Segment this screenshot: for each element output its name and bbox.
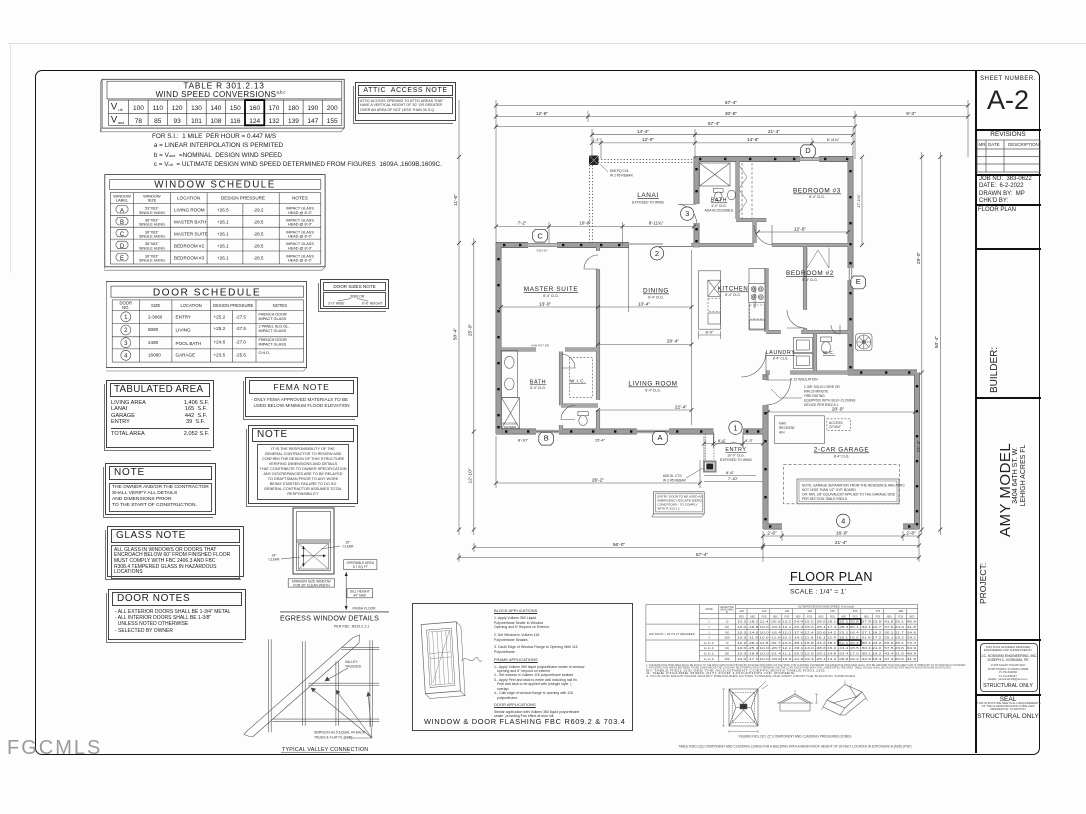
svg-text:FOR 20" CLEAR WIDTH: FOR 20" CLEAR WIDTH: [293, 583, 330, 587]
svg-text:2e, 2n, 2r: 2e, 2n, 2r: [704, 647, 714, 650]
svg-text:1: 1: [708, 637, 710, 640]
svg-text:FINISH FLOOR: FINISH FLOOR: [352, 607, 376, 611]
wall left exterior: [496, 243, 501, 434]
svg-text:120: 120: [762, 609, 767, 613]
window C: [528, 244, 557, 247]
wind speed conversion table: [100, 76, 352, 134]
svg-text:44" MAX: 44" MAX: [353, 594, 367, 598]
typical valley connection: [244, 635, 379, 738]
svg-text:2e, 2n, 2r: 2e, 2n, 2r: [704, 653, 714, 656]
pool bath sink: [728, 190, 736, 200]
window & door flashing box: [412, 603, 633, 731]
svg-text:POS: POS: [784, 616, 789, 618]
svg-text:ULTIMATE DESIGN WIND SPEED, V-: ULTIMATE DESIGN WIND SPEED, V-ult (mph): [798, 605, 854, 609]
pool bath toilet: [714, 189, 724, 193]
wall wic/toilet divider: [561, 404, 598, 407]
wall pool bath west: [736, 161, 739, 219]
wall bedroom2 south: [766, 331, 850, 334]
svg-text:1: 1: [708, 626, 710, 629]
svg-text:NEG: NEG: [819, 616, 824, 618]
svg-text:SIMPSON H2.5 EQUAL #4 EACH: SIMPSON H2.5 EQUAL #4 EACH: [314, 731, 366, 735]
window B: [536, 430, 559, 433]
wall bottom exterior: [496, 429, 764, 434]
note right: [248, 425, 358, 504]
window D: [800, 158, 819, 161]
pressure table: [646, 605, 918, 662]
main drawing frame: [35, 70, 1040, 755]
kitchen counter: [749, 269, 765, 331]
svg-text:POS: POS: [853, 616, 858, 618]
svg-text:5.7 SQ FT: 5.7 SQ FT: [353, 565, 368, 569]
svg-text:140: 140: [807, 609, 812, 613]
svg-text:EGRESS WINDOW DETAILS: EGRESS WINDOW DETAILS: [280, 614, 379, 623]
entry note box: [652, 492, 704, 517]
wall master/dining divider: [597, 247, 600, 352]
svg-text:CLEAR: CLEAR: [343, 545, 355, 549]
fridge dashed: [750, 305, 765, 319]
svg-text:POS: POS: [875, 616, 880, 618]
page edge faint lines: [8, 43, 1086, 44]
svg-text:POS: POS: [830, 616, 835, 618]
svg-text:10: 10: [726, 621, 729, 624]
svg-text:1000: 1000: [724, 637, 730, 640]
island: [699, 271, 721, 329]
pool bath shower: [700, 163, 731, 186]
window schedule: [104, 174, 336, 274]
window/door markers: [533, 145, 866, 528]
svg-text:1: 1: [708, 621, 710, 624]
svg-text:180: 180: [898, 609, 903, 613]
svg-text:HIP ROOF > 20 TO 27 DEGREES: HIP ROOF > 20 TO 27 DEGREES: [649, 632, 695, 636]
tabulated area: [106, 380, 214, 448]
wall laundry/wc divider: [814, 334, 817, 372]
svg-text:100: 100: [725, 626, 730, 629]
window E: [849, 268, 852, 280]
door schedule: [106, 281, 318, 375]
wall garage top: [848, 370, 917, 375]
svg-text:FIGURE R301.2(7) (2'') COMPON: FIGURE R301.2(7) (2'') COMPONENT AND CLA…: [739, 735, 852, 739]
wall bedroom2 west: [804, 247, 807, 333]
wall anchor dots: [497, 158, 918, 528]
svg-text:150: 150: [830, 609, 835, 613]
wall bath/wic divider: [560, 352, 563, 431]
dimension texts: [453, 100, 941, 558]
notes under wind table: [152, 132, 442, 169]
window A: [637, 430, 669, 433]
svg-text:160: 160: [853, 609, 858, 613]
svg-text:500: 500: [725, 653, 730, 656]
bedroom2 closet bifold dashed: [807, 248, 829, 269]
AC fan: [856, 334, 873, 351]
svg-text:ft²: ft²: [726, 611, 728, 614]
wall hall north / dining: [691, 244, 849, 247]
wall top bedroom wing: [694, 157, 853, 162]
wall lanai right: [694, 157, 699, 248]
svg-text:TABLE R301-2(2) COMPONENT AND: TABLE R301-2(2) COMPONENT AND CLADDING L…: [679, 745, 912, 749]
FGCMLS watermark: [7, 737, 102, 760]
svg-text:10.0 -14.0 10.0 -16.4 11.0 -17: 10.0 -14.0 10.0 -16.4 11.0 -17.6 12.4 -2…: [737, 631, 917, 634]
svg-text:TRUSSES: TRUSSES: [345, 665, 362, 669]
svg-text:NEG: NEG: [864, 616, 869, 618]
wall bedroom3 west: [753, 220, 756, 243]
svg-text:PER FBC. R310.2.1-1: PER FBC. R310.2.1-1: [334, 625, 369, 629]
master shower: [502, 398, 520, 429]
svg-text:10.2 -28.4 11.8 -32.7 13.6 -38: 10.2 -28.4 11.8 -32.7 13.6 -38.1 15.8 -4…: [737, 642, 917, 645]
svg-text:2e, 2n, 2r: 2e, 2n, 2r: [704, 658, 714, 661]
footnotes: [646, 663, 966, 678]
wall garage right: [915, 373, 920, 530]
note left: [105, 463, 216, 515]
wall hall/laundry south: [766, 371, 848, 374]
door notes: [108, 589, 246, 640]
svg-text:-115: -115: [739, 609, 745, 613]
fema note: [245, 377, 358, 417]
max recess AH: [774, 416, 824, 444]
roof zone diagrams: [722, 680, 868, 733]
svg-text:10: 10: [726, 642, 729, 645]
svg-text:1: 1: [708, 631, 710, 634]
svg-text:NEG: NEG: [887, 616, 892, 618]
attic access note: [355, 82, 456, 121]
wall garage bottom stubs: [763, 524, 920, 529]
entry column: [704, 462, 716, 472]
svg-text:NEG: NEG: [910, 616, 915, 618]
garage door dashed area + note: [784, 465, 900, 504]
svg-text:10.2 -18.1 11.4 -20.5 13.2 -24: 10.2 -18.1 11.4 -20.5 13.2 -24.4 15.5 -2…: [737, 621, 917, 624]
wall pool bath south: [736, 219, 767, 222]
sliding door 2: [629, 244, 691, 247]
svg-text:1000: 1000: [724, 658, 730, 661]
dimension tick marks: [457, 104, 970, 560]
svg-text:POS: POS: [762, 616, 767, 618]
door arcs: [561, 205, 840, 447]
lanai screen dotted: [590, 160, 695, 244]
svg-text:NEG: NEG: [750, 616, 755, 618]
wc toilet: [821, 337, 832, 342]
door sizes note: [320, 279, 389, 309]
svg-text:2e, 2n, 2r: 2e, 2n, 2r: [704, 642, 714, 645]
svg-text:POS: POS: [739, 616, 744, 618]
bifold closet pool hall: [742, 163, 752, 218]
svg-text:TRUSS & FLAT PL (TYP): TRUSS & FLAT PL (TYP): [314, 736, 352, 740]
washer dryer: [793, 337, 812, 352]
svg-text:170: 170: [876, 609, 881, 613]
small annotations: [600, 164, 856, 483]
wall right exterior: [848, 157, 853, 376]
wall top master suite: [496, 243, 629, 248]
wall garage left: [763, 374, 768, 529]
svg-text:500: 500: [725, 631, 730, 634]
svg-text:130: 130: [785, 609, 790, 613]
svg-text:NEG: NEG: [841, 616, 846, 618]
svg-text:NEG: NEG: [796, 616, 801, 618]
svg-text:10.0 -17.1 10.0 -18.6 10.9 -21: 10.0 -17.1 10.0 -18.6 10.9 -21.6 12.4 -2…: [737, 658, 917, 661]
svg-text:ZONE: ZONE: [705, 607, 713, 611]
svg-text:100: 100: [725, 647, 730, 650]
master wic shelves dashed: [570, 358, 593, 398]
windows (thin): [528, 158, 852, 433]
wall wic east: [597, 352, 600, 431]
svg-text:VALLEY: VALLEY: [345, 660, 358, 664]
wall master suite bottom (pocket door): [501, 348, 598, 351]
master toilet: [578, 412, 588, 416]
svg-text:4. PLUS AND MINUS SIGNS SIGNIF: 4. PLUS AND MINUS SIGNS SIGNIFY PRESSURE…: [646, 674, 856, 678]
svg-text:10.0 -11.9 10.0 -12.8 10.3 -14: 10.0 -11.9 10.0 -12.8 10.3 -14.1 11.5 -1…: [737, 637, 917, 640]
range: [749, 284, 765, 303]
svg-text:POS: POS: [898, 616, 903, 618]
svg-text:10.0 -25.4 10.0 -28.7 12.1 -33: 10.0 -25.4 10.0 -28.7 12.1 -33.1 14.0 -3…: [737, 647, 917, 650]
island sink X: [708, 280, 721, 296]
svg-text:10.0 -18.9 10.0 -21.4 11.1 -25: 10.0 -18.9 10.0 -21.4 11.1 -25.0 12.9 -2…: [737, 653, 917, 656]
glass note: [107, 526, 244, 577]
lanai post: [589, 156, 599, 166]
svg-text:CLEAR: CLEAR: [269, 558, 281, 562]
wall kitchen east: [765, 268, 768, 332]
sink cabinet: [750, 320, 765, 329]
island dishwasher dashed: [708, 299, 721, 312]
svg-text:TYPICAL VALLEY CONNECTION: TYPICAL VALLEY CONNECTION: [282, 747, 368, 753]
egress window detail: [280, 508, 389, 612]
svg-text:POS: POS: [807, 616, 812, 618]
svg-text:10.0 -16.8 10.0 -19.1 12.1 -21: 10.0 -16.8 10.0 -19.1 12.1 -21.4 15.6 -2…: [737, 626, 917, 629]
svg-text:NEG: NEG: [773, 616, 778, 618]
master vanity: [502, 351, 518, 398]
entry jamb dotted: [706, 434, 715, 461]
